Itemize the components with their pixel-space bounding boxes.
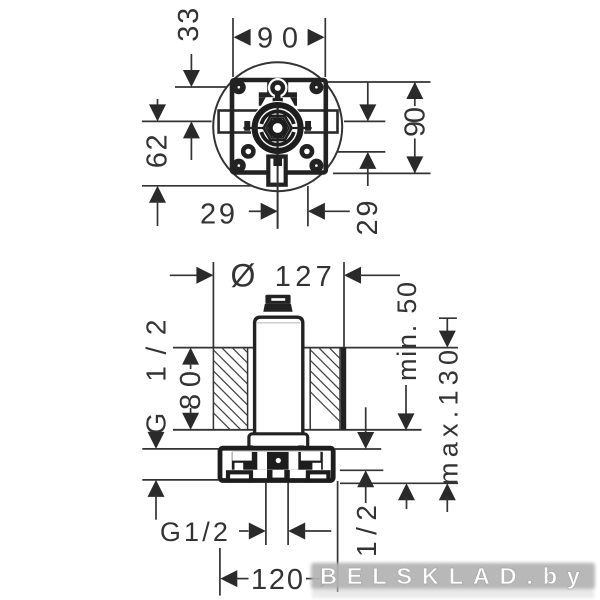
wire extension line y=87 (33 dim reference) <box>175 86 268 88</box>
slot nub <box>273 157 282 167</box>
dia127 extension right <box>343 262 345 348</box>
trapezoid clamp bar <box>259 92 297 97</box>
dim 120 right extension <box>337 481 339 592</box>
dim 29 bottom line/arrows <box>249 210 262 212</box>
slot center line <box>277 166 279 229</box>
shoulder flange <box>249 434 308 449</box>
bottom slot housing <box>268 157 285 185</box>
crosshair horizontal <box>244 127 264 129</box>
lower box right <box>308 472 329 480</box>
svg-text:min. 50: min. 50 <box>392 280 422 381</box>
mounting plate square <box>232 80 326 173</box>
hex nut inner <box>267 118 289 137</box>
svg-text:max.130: max.130 <box>434 348 464 485</box>
dim 29 bottom right extension <box>307 186 309 226</box>
top pilot hole halo <box>268 78 288 98</box>
dim 90 top arrows <box>234 29 251 46</box>
cylinder inner line <box>257 322 300 324</box>
dim 33 stem <box>190 54 192 72</box>
clamp block east <box>305 121 311 131</box>
svg-text:90: 90 <box>400 107 432 137</box>
middle arc ring top <box>261 111 293 124</box>
top pilot hole ring <box>272 83 283 94</box>
dim 90 right line <box>414 82 416 106</box>
svg-text:33: 33 <box>173 5 205 42</box>
dim 62 down arrow <box>157 99 159 108</box>
dim 90 right extensions <box>328 81 431 83</box>
left wall hatch <box>141 340 336 440</box>
flange circle <box>213 62 342 191</box>
crossbar outer <box>220 448 333 480</box>
screw bottom-right <box>309 159 323 173</box>
right wall hatch <box>259 340 433 440</box>
port verticals <box>265 482 267 545</box>
bracket housing verticals top <box>267 80 269 93</box>
clamp block west <box>244 121 250 131</box>
G12 left refs <box>142 448 219 450</box>
G12 left arrows <box>148 432 165 449</box>
screw bottom-left <box>232 159 246 173</box>
anchor stem <box>275 94 281 108</box>
dim 120 left extension <box>219 548 221 596</box>
dim 29 right refs <box>344 120 385 122</box>
dim 33 arrow <box>183 70 200 87</box>
wall bottom line <box>173 429 254 431</box>
wall top line <box>173 347 254 349</box>
trapezoid right wing <box>290 97 297 106</box>
cap block lower <box>263 304 292 312</box>
svg-text:1/2: 1/2 <box>351 505 382 557</box>
center port <box>267 470 290 482</box>
middle arc ring bottom <box>261 132 293 145</box>
svg-text:G1/2: G1/2 <box>160 517 228 547</box>
trapezoid left wing <box>259 97 266 106</box>
crosshair vertical <box>277 105 279 119</box>
G12 bottom dim <box>239 530 249 532</box>
cap block upper <box>265 295 290 304</box>
wall anchor bar right <box>341 348 346 430</box>
crossbar band with side tabs <box>219 111 338 133</box>
dim 62 up arrow <box>149 186 166 203</box>
band cutouts <box>232 452 252 461</box>
watermark <box>311 563 595 598</box>
central donut <box>255 105 301 151</box>
svg-text:120: 120 <box>251 564 303 596</box>
dim 90 top extension right <box>324 18 326 77</box>
central assembly backing <box>251 101 305 155</box>
crossbar stubs <box>247 445 253 450</box>
dim 33 lower arrow <box>183 121 200 138</box>
svg-text:Ø: Ø <box>231 258 256 294</box>
lower ring west <box>243 146 253 156</box>
wire extension line y=121.4 left <box>142 120 212 122</box>
dim 29 right stems/arrows <box>367 82 369 106</box>
dia127 extension left <box>212 262 214 348</box>
lower ring east <box>302 146 312 156</box>
dim 80 <box>182 348 199 365</box>
screw top-left <box>232 80 246 94</box>
hex nut outer <box>264 116 292 140</box>
svg-text:29: 29 <box>352 198 384 236</box>
wire extension line y=185.8 left <box>142 185 266 187</box>
svg-text:127: 127 <box>275 261 332 293</box>
dim 90 right arrows <box>406 82 423 99</box>
crossbar inner band <box>232 452 323 470</box>
cylinder body <box>255 317 303 434</box>
max130 dim <box>439 317 457 319</box>
dim 90 top extension left <box>232 18 234 77</box>
dim 120 <box>220 570 237 587</box>
dim 12 side refs <box>335 448 381 450</box>
center bore ring <box>270 121 284 135</box>
dia127 dim <box>170 274 197 276</box>
svg-text:62: 62 <box>142 131 174 168</box>
crossbar bottom ref line <box>340 482 458 484</box>
screw top-right <box>309 80 323 94</box>
lower box left <box>228 472 251 480</box>
